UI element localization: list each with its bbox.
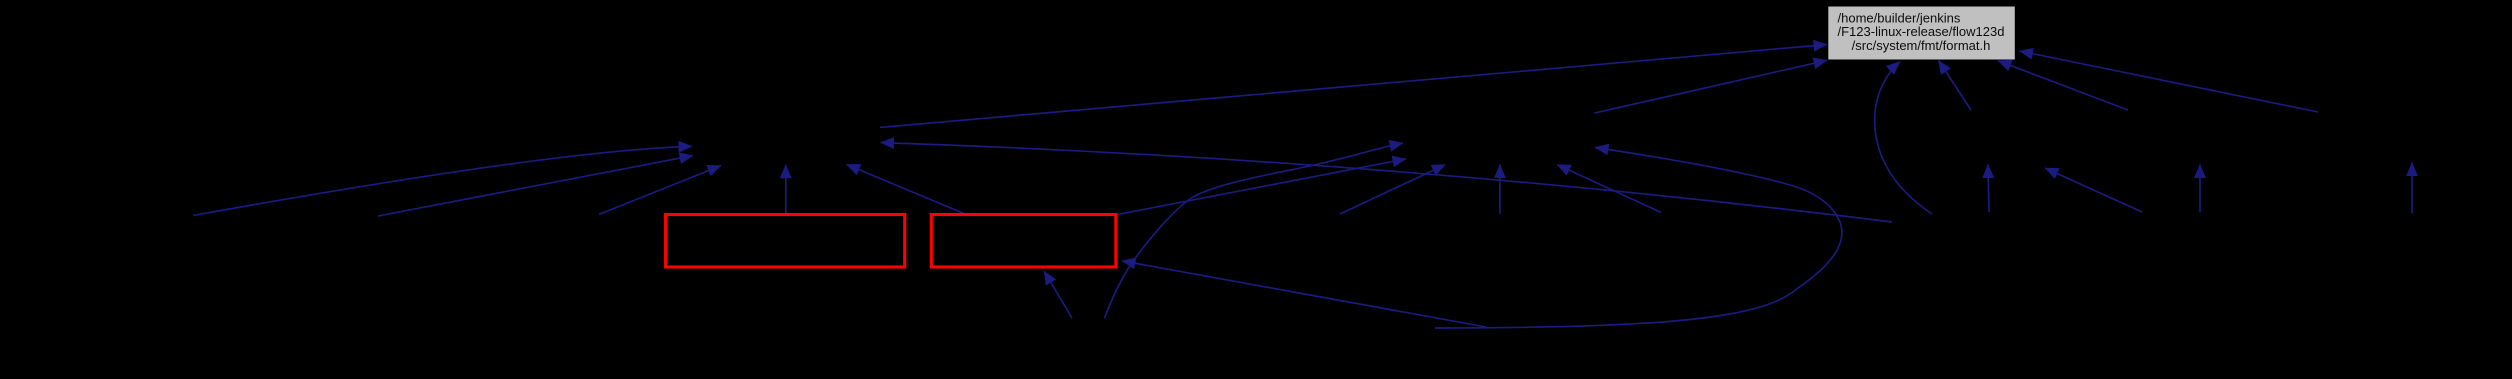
red box 1 (truncated node) — [666, 215, 905, 268]
edge B: node(378,216) to N1 left lower — [378, 156, 693, 216]
edge curve A: node(1104,318) to N2 left upper — [1105, 143, 1404, 318]
edge V: node(1072,318) to red box 2 bottom — [1044, 271, 1072, 318]
edge eta: node(1892,222) long shallow curve to N1 right edge — [881, 143, 1893, 222]
edge C: node(599,214) to N1 bottom-left — [599, 166, 721, 215]
edge node(1971,110) to gray box bottom — [1939, 60, 1972, 110]
edge node(2142,212) slanted — [2045, 168, 2142, 212]
edge vertical rank1 right a — [1988, 165, 1989, 213]
gray node: /src/system/fmt/format.h — [1828, 7, 2015, 60]
red box 2 (truncated node) — [931, 215, 1116, 268]
edge vertical rank1 right b — [2199, 165, 2201, 213]
svg-text:/home/builder/jenkins: /home/builder/jenkins — [1838, 10, 1961, 25]
edge A: node(192,214) to N1 left upper — [193, 146, 692, 215]
svg-text:/src/system/fmt/format.h: /src/system/fmt/format.h — [1852, 38, 1991, 53]
edge D: red box 1 to N1 bottom vertical — [785, 165, 787, 214]
edge curve G: node(1932,214) left-bulge curve to gray box bottom — [1875, 62, 1932, 215]
edge vertical to N2 bottom — [1499, 165, 1501, 214]
edge node(2128,110) to gray box bottom-right corner — [1998, 61, 2128, 110]
edge steep: node(1340,214) to N2 bottom-left — [1340, 165, 1445, 214]
edge delta: node(1486,327) to red box 2 right edge — [1122, 261, 1486, 327]
svg-text:/F123-linux-release/flow123d: /F123-linux-release/flow123d — [1838, 24, 2005, 39]
edge N1 to gray box left upper — [880, 45, 1827, 128]
edge node(1661,212) to N2 bottom-right — [1557, 165, 1661, 213]
edge vertical rank1 right c — [2411, 163, 2413, 214]
edge red box 2 corner to N2 left lower — [1118, 159, 1407, 215]
edge node(2318,112) to gray box right edge — [2020, 51, 2319, 112]
edge N2 to gray box left lower — [1594, 60, 1827, 113]
edge curve B: node(1435,328) big right bulge to N2 right edge — [1435, 148, 1842, 329]
edge E: red box 2 top to N1 bottom-right — [847, 165, 965, 214]
